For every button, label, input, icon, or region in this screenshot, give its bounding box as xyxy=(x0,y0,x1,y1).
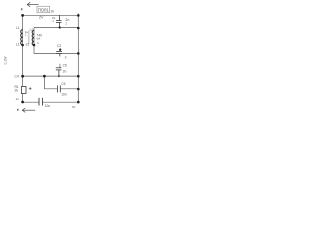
svg-text:ZV: ZV xyxy=(39,16,44,20)
node left bus 76 xyxy=(21,75,24,78)
capacitor C1 xyxy=(56,15,62,27)
wire right bus xyxy=(77,13,79,102)
capacitor C2 xyxy=(56,50,62,57)
svg-text:0.1W: 0.1W xyxy=(4,56,8,65)
svg-text:C4: C4 xyxy=(15,75,19,79)
svg-text:2: 2 xyxy=(65,56,67,60)
svg-text:C2: C2 xyxy=(57,44,61,48)
svg-text:L1: L1 xyxy=(16,42,20,46)
node C2 top xyxy=(59,49,61,51)
wire drop from middle bus xyxy=(44,76,57,89)
svg-text:0V: 0V xyxy=(72,105,76,109)
node top-left junction xyxy=(21,14,24,17)
svg-text:ПOЛ1: ПOЛ1 xyxy=(38,7,49,12)
junction dots xyxy=(21,14,79,103)
node right bus 76 xyxy=(77,75,80,78)
wire middle bus xyxy=(23,75,79,77)
node top-right junction xyxy=(77,14,80,17)
arrow top connector xyxy=(27,2,38,6)
transformer core xyxy=(28,31,30,45)
svg-text:2n: 2n xyxy=(65,18,69,22)
svg-text:2k: 2k xyxy=(15,88,19,92)
node C1 bottom xyxy=(59,26,61,28)
plus polarity mark xyxy=(29,87,32,90)
svg-text:C6: C6 xyxy=(61,82,65,86)
wire left rail xyxy=(22,15,24,102)
transformer L1 primary winding xyxy=(21,30,23,45)
capacitor C7 electrolytic xyxy=(39,98,42,106)
capacitor C5 xyxy=(56,64,62,76)
svg-text:10n: 10n xyxy=(61,93,67,97)
svg-text:C5: C5 xyxy=(63,64,67,68)
svg-text:a1: a1 xyxy=(26,42,30,46)
arrow bottom connector xyxy=(22,108,35,112)
node right bus 28 xyxy=(77,27,80,30)
wire tank vertical xyxy=(33,27,35,53)
capacitor C6 series xyxy=(57,85,60,92)
node C5 bottom xyxy=(58,75,60,77)
label box LPO1 xyxy=(37,6,50,13)
svg-text:L1: L1 xyxy=(16,26,20,30)
wire bottom left xyxy=(23,101,39,103)
stub mark above top-left junction xyxy=(21,8,23,10)
tick left of bottom arrow xyxy=(17,109,19,111)
wire tank top xyxy=(34,26,78,28)
transformer L1 secondary winding xyxy=(32,30,34,45)
wire top bus xyxy=(23,14,79,16)
node primary bottom xyxy=(21,44,24,47)
svg-text:1n: 1n xyxy=(16,97,20,101)
node drop 76 xyxy=(43,75,46,78)
svg-text:2n: 2n xyxy=(63,69,67,73)
node secondary bottom xyxy=(33,44,36,47)
node right bus bottom xyxy=(77,101,80,104)
svg-text:2k: 2k xyxy=(51,9,55,13)
wire bottom right xyxy=(43,101,79,103)
node right bus 89 xyxy=(77,88,80,91)
wire middle row xyxy=(34,53,78,55)
resistor R1 xyxy=(21,87,26,94)
node right bus 53 xyxy=(77,52,80,55)
svg-text:10u: 10u xyxy=(45,104,51,108)
node left bottom xyxy=(21,101,24,104)
wire earphone right xyxy=(61,88,79,90)
svg-text:L2: L2 xyxy=(30,27,34,31)
